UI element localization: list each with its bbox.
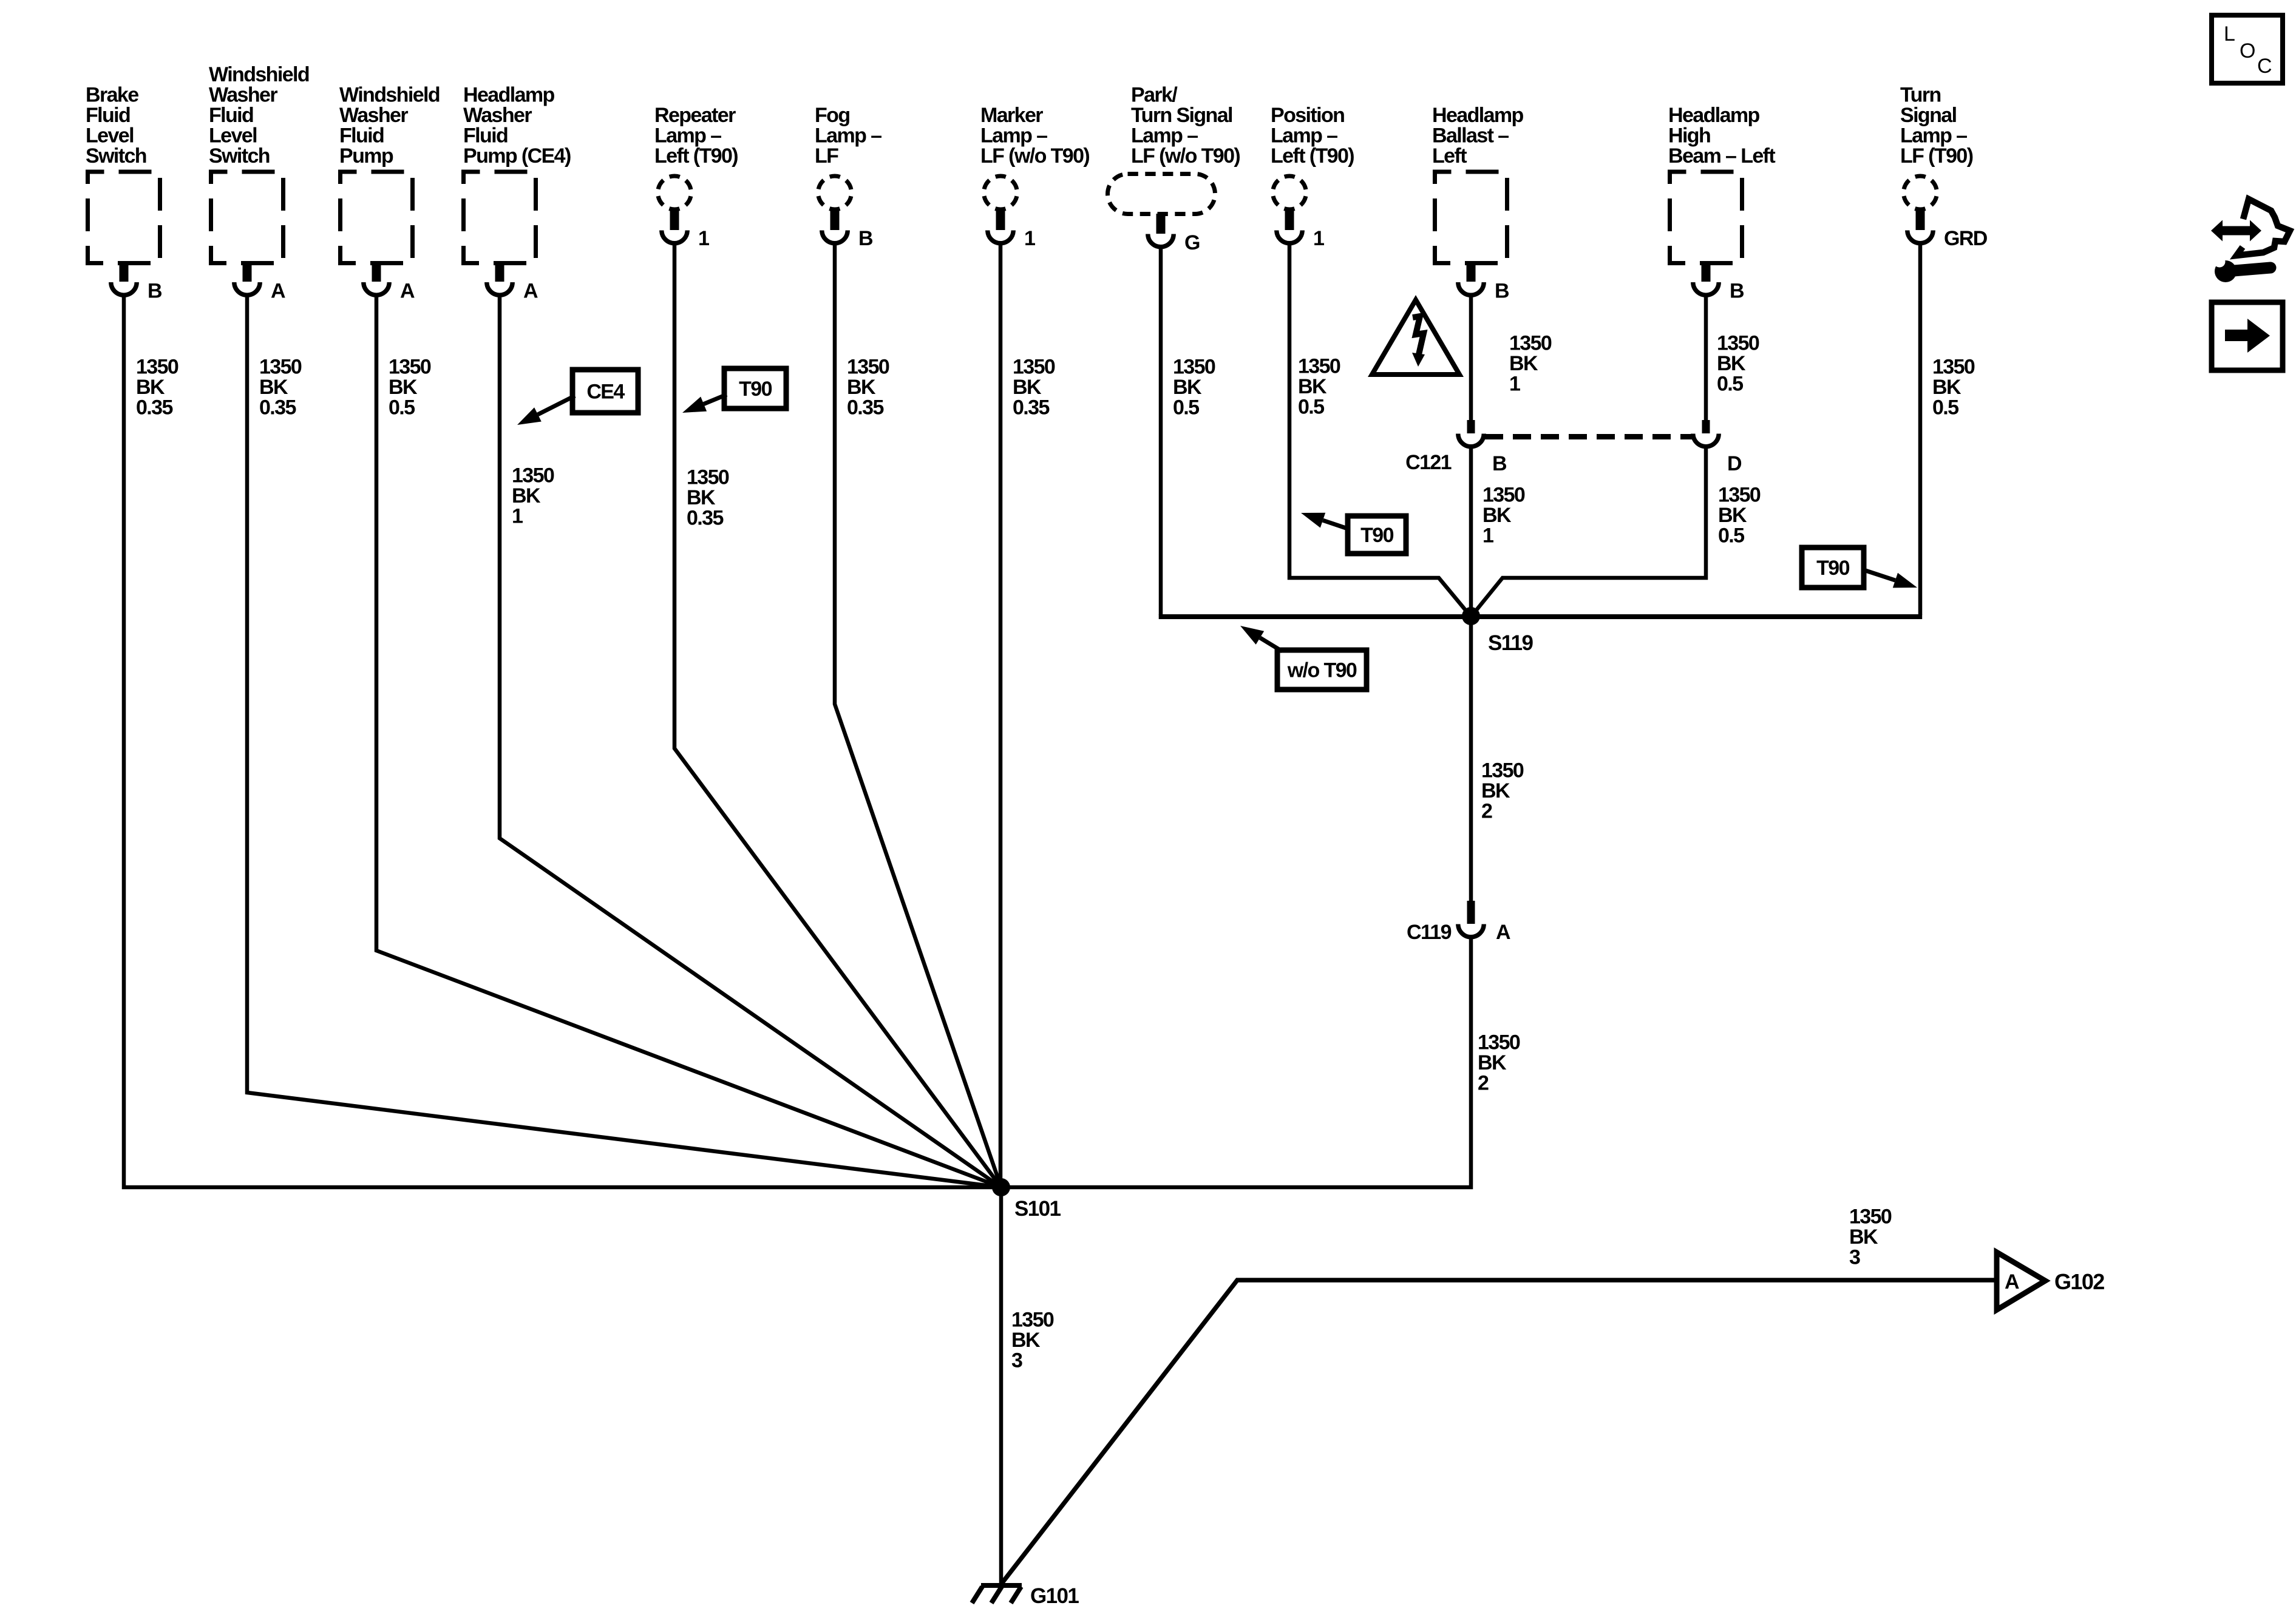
svg-text:CE4: CE4 [586, 381, 625, 404]
svg-text:GRD: GRD [1944, 227, 1988, 250]
svg-text:3: 3 [1849, 1246, 1860, 1269]
svg-text:BK: BK [1509, 352, 1538, 375]
connector C121 pin B [1458, 420, 1484, 447]
svg-text:Ballast –: Ballast – [1432, 124, 1509, 147]
wire label 1350 BK 1 (Headlamp Ballast) [1509, 332, 1552, 396]
Headlamp Washer Fluid Pump (CE4) symbol [464, 172, 536, 295]
wire Marker Lamp pin 1 to S101 [999, 243, 1003, 1187]
svg-text:0.35: 0.35 [259, 396, 296, 419]
svg-text:Fluid: Fluid [339, 124, 384, 147]
svg-text:BK: BK [1849, 1225, 1878, 1249]
component label: Repeater Lamp - Left (T90) [654, 104, 738, 168]
Brake Fluid Level Switch symbol [88, 172, 160, 295]
wire label 1350 BK 2 (S119 to C119) [1481, 759, 1524, 823]
svg-text:1350: 1350 [847, 356, 889, 379]
wire label 1350 BK 0.5 (Park/Turn Signal Lamp) [1173, 356, 1215, 419]
svg-text:1350: 1350 [1849, 1205, 1892, 1229]
component label: Fog Lamp - LF [815, 104, 881, 168]
wire label 1350 BK 3 (to G102) [1849, 1205, 1892, 1269]
svg-text:Washer: Washer [339, 104, 408, 127]
wire S101 to ground G101 [999, 1187, 1004, 1584]
svg-text:Headlamp: Headlamp [463, 84, 555, 107]
component label: Headlamp Washer Fluid Pump (CE4) [463, 84, 571, 168]
wire label 1350 BK 1 (Headlamp Washer Fluid Pump) [512, 464, 554, 528]
svg-text:0.5: 0.5 [389, 396, 415, 419]
svg-text:LF (w/o T90): LF (w/o T90) [1131, 144, 1240, 168]
svg-text:1350: 1350 [1298, 355, 1340, 378]
svg-text:1350: 1350 [1509, 332, 1552, 355]
svg-text:Level: Level [86, 124, 134, 147]
wire Brake Fluid Level Switch pin B to S101 [124, 296, 999, 1187]
svg-text:2: 2 [1478, 1072, 1489, 1095]
wire label 1350 BK 3 (S101 to G101) [1011, 1309, 1054, 1372]
svg-text:Left (T90): Left (T90) [1271, 144, 1354, 168]
wire Headlamp Ballast pin B to connector C121 pin B [1469, 296, 1473, 421]
svg-text:BK: BK [389, 376, 418, 399]
T90 option label box with arrow (Repeater Lamp) [682, 368, 786, 413]
high voltage warning triangle [1372, 300, 1459, 375]
connector C119 pin A [1458, 901, 1484, 937]
svg-text:B: B [858, 227, 873, 250]
svg-text:1350: 1350 [687, 466, 729, 489]
wire Fog Lamp pin B to S101 [835, 243, 1001, 1187]
svg-text:Lamp –: Lamp – [1131, 124, 1198, 147]
svg-text:Turn: Turn [1900, 84, 1941, 107]
Repeater Lamp - Left (T90) symbol [658, 176, 691, 243]
LOC reference box [2212, 15, 2283, 83]
svg-text:Headlamp: Headlamp [1668, 104, 1760, 127]
svg-text:0.35: 0.35 [847, 396, 883, 419]
svg-text:LF (T90): LF (T90) [1900, 144, 1973, 168]
component label: Turn Signal Lamp - LF (T90) [1900, 84, 1973, 168]
svg-text:0.5: 0.5 [1932, 396, 1958, 419]
Position Lamp - Left (T90) symbol [1273, 176, 1306, 243]
wire Position Lamp pin 1 to S119 [1289, 243, 1471, 617]
svg-text:A: A [400, 280, 415, 303]
svg-text:S101: S101 [1014, 1197, 1061, 1221]
wire label 1350 BK 0.35 (Windshield Washer Fluid Level Switch) [259, 356, 302, 419]
svg-text:Switch: Switch [86, 144, 146, 168]
Park/Turn Signal Lamp - LF (w/o T90) symbol [1108, 174, 1215, 247]
Turn Signal Lamp - LF (T90) symbol [1904, 176, 1937, 243]
svg-text:G: G [1184, 231, 1200, 254]
svg-text:BK: BK [1481, 779, 1510, 802]
svg-text:2: 2 [1481, 800, 1492, 823]
svg-text:B: B [1730, 280, 1744, 303]
svg-text:T90: T90 [1360, 524, 1393, 547]
svg-text:Marker: Marker [980, 104, 1043, 127]
ground G101 [972, 1585, 1022, 1603]
svg-text:BK: BK [847, 376, 876, 399]
svg-text:Windshield: Windshield [339, 84, 440, 107]
svg-text:1350: 1350 [1013, 356, 1055, 379]
svg-text:Position: Position [1271, 104, 1344, 127]
svg-text:L: L [2224, 22, 2235, 46]
component label: Brake Fluid Level Switch [86, 84, 146, 168]
svg-text:1: 1 [698, 227, 709, 250]
wire label 1350 BK 0.35 (Marker Lamp) [1013, 356, 1055, 419]
svg-text:Switch: Switch [209, 144, 270, 168]
wire Turn Signal Lamp pin GRD down to S119 bus [1918, 243, 1923, 615]
wire Repeater Lamp pin 1 to S101 [674, 243, 1001, 1187]
svg-text:BK: BK [1932, 376, 1961, 399]
svg-text:A: A [2005, 1270, 2019, 1293]
svg-text:BK: BK [1478, 1051, 1507, 1074]
svg-text:BK: BK [259, 376, 288, 399]
svg-text:High: High [1668, 124, 1710, 147]
svg-text:C119: C119 [1407, 921, 1452, 944]
svg-text:A: A [523, 280, 538, 303]
svg-text:Fluid: Fluid [209, 104, 253, 127]
svg-text:Lamp –: Lamp – [1271, 124, 1337, 147]
wire label 1350 BK 0.5 (Position Lamp) [1298, 355, 1340, 419]
Fog Lamp - LF symbol [818, 176, 852, 243]
svg-text:1350: 1350 [512, 464, 554, 487]
svg-text:0.5: 0.5 [1717, 373, 1743, 396]
svg-text:0.5: 0.5 [1298, 396, 1324, 419]
svg-text:1: 1 [1509, 373, 1520, 396]
connector C121 pin D [1693, 420, 1719, 447]
wire Headlamp Washer Fluid Pump pin A to S101 [500, 296, 1001, 1187]
wire S119 to connector C119 pin A [1469, 617, 1473, 901]
wire G101 branch to ground G102 [1001, 1280, 1995, 1584]
wire label 1350 BK 0.35 (Repeater Lamp) [687, 466, 729, 530]
Headlamp High Beam - Left symbol [1670, 172, 1742, 295]
wire Headlamp High Beam pin B to connector C121 pin D [1704, 296, 1708, 421]
svg-text:1350: 1350 [1173, 356, 1215, 379]
svg-text:1350: 1350 [389, 356, 431, 379]
svg-text:1350: 1350 [1932, 356, 1975, 379]
svg-text:Left (T90): Left (T90) [654, 144, 738, 168]
wire label 1350 BK 0.35 (Brake Fluid Level Switch) [136, 356, 178, 419]
svg-text:A: A [271, 280, 285, 303]
svg-text:Fluid: Fluid [463, 124, 508, 147]
svg-text:D: D [1727, 452, 1742, 475]
svg-text:1350: 1350 [1478, 1031, 1520, 1054]
svg-text:B: B [148, 280, 162, 303]
svg-text:0.35: 0.35 [687, 507, 723, 530]
component label: Headlamp Ballast - Left [1432, 104, 1524, 168]
svg-text:0.5: 0.5 [1173, 396, 1199, 419]
svg-text:C121: C121 [1405, 451, 1452, 474]
svg-text:1350: 1350 [1481, 759, 1524, 782]
svg-text:Lamp –: Lamp – [1900, 124, 1967, 147]
wire label 1350 BK 2 (C119 to S101) [1478, 1031, 1520, 1095]
CE4 option label box with arrow [517, 370, 638, 425]
w/o T90 option label box with arrow (S119 bus) [1240, 626, 1367, 690]
svg-text:Windshield: Windshield [209, 63, 309, 86]
wire label 1350 BK 1 (C121 B to S119) [1483, 484, 1525, 547]
svg-text:Lamp –: Lamp – [980, 124, 1047, 147]
svg-text:G102: G102 [2054, 1269, 2104, 1294]
wire Park/Turn Signal Lamp pin G down to S119 bus [1159, 246, 1163, 615]
wire label 1350 BK 0.5 (Windshield Washer Fluid Pump) [389, 356, 431, 419]
wire C121 pin B to S119 [1469, 448, 1473, 617]
svg-text:G101: G101 [1030, 1584, 1079, 1608]
svg-text:0.35: 0.35 [136, 396, 172, 419]
svg-text:Headlamp: Headlamp [1432, 104, 1524, 127]
svg-text:BK: BK [1717, 352, 1746, 375]
svg-text:1: 1 [1024, 227, 1035, 250]
svg-text:Brake: Brake [86, 84, 138, 107]
svg-text:1: 1 [512, 505, 523, 528]
svg-text:Lamp –: Lamp – [815, 124, 881, 147]
component label: Park/Turn Signal Lamp - LF (w/o T90) [1131, 84, 1240, 168]
C121 dashed connector link [1485, 434, 1693, 439]
svg-text:1350: 1350 [136, 356, 178, 379]
splice S119 [1462, 607, 1480, 625]
svg-text:0.5: 0.5 [1718, 524, 1744, 547]
svg-text:LF: LF [815, 144, 838, 168]
forward reference arrow box [2212, 302, 2283, 370]
svg-text:BK: BK [1013, 376, 1042, 399]
wire label 1350 BK 0.5 (C121 D to S119) [1718, 484, 1761, 547]
svg-text:Pump: Pump [339, 144, 393, 168]
svg-text:3: 3 [1011, 1349, 1022, 1372]
svg-text:Lamp –: Lamp – [654, 124, 721, 147]
svg-text:Fluid: Fluid [86, 104, 130, 127]
svg-text:BK: BK [512, 484, 541, 507]
wire label 1350 BK 0.5 (Turn Signal Lamp) [1932, 356, 1975, 419]
svg-text:S119: S119 [1488, 631, 1533, 655]
svg-text:B: B [1495, 280, 1509, 303]
body repair icon (double arrow, panel outline, wrench) [2211, 199, 2290, 282]
svg-text:1: 1 [1483, 524, 1493, 547]
svg-text:Repeater: Repeater [654, 104, 736, 127]
ground G102 connector triangle A [1997, 1252, 2045, 1310]
svg-text:Level: Level [209, 124, 257, 147]
component label: Windshield Washer Fluid Pump [339, 84, 440, 168]
svg-text:BK: BK [687, 486, 716, 509]
svg-text:1350: 1350 [1717, 332, 1759, 355]
Headlamp Ballast - Left symbol [1435, 172, 1507, 295]
svg-text:A: A [1496, 921, 1510, 944]
svg-text:T90: T90 [739, 378, 772, 401]
wire Windshield Washer Fluid Level Switch pin A to S101 [247, 296, 1001, 1187]
svg-text:1: 1 [1313, 227, 1324, 250]
svg-text:Left: Left [1432, 144, 1467, 168]
svg-text:O: O [2240, 39, 2255, 63]
wire label 1350 BK 0.5 (Headlamp High Beam) [1717, 332, 1759, 396]
T90 option label box with arrow (Turn Signal) [1802, 547, 1917, 588]
svg-text:1350: 1350 [259, 356, 302, 379]
svg-text:0.35: 0.35 [1013, 396, 1049, 419]
Marker Lamp - LF (w/o T90) symbol [984, 176, 1017, 243]
svg-text:BK: BK [1173, 376, 1202, 399]
wire S119 bus horizontal [1159, 614, 1923, 619]
svg-text:C: C [2257, 55, 2272, 78]
svg-text:T90: T90 [1816, 557, 1849, 580]
svg-text:BK: BK [1298, 375, 1327, 398]
component label: Marker Lamp - LF (w/o T90) [980, 104, 1089, 168]
svg-text:LF (w/o T90): LF (w/o T90) [980, 144, 1089, 168]
svg-text:1350: 1350 [1483, 484, 1525, 507]
wire Windshield Washer Fluid Pump pin A to S101 [376, 296, 1001, 1187]
svg-text:Park/: Park/ [1131, 84, 1178, 107]
svg-text:BK: BK [1718, 504, 1747, 527]
svg-text:Washer: Washer [463, 104, 532, 127]
svg-text:Turn Signal: Turn Signal [1131, 104, 1232, 127]
svg-text:BK: BK [1011, 1329, 1041, 1352]
svg-text:w/o T90: w/o T90 [1287, 659, 1357, 682]
svg-text:Signal: Signal [1900, 104, 1957, 127]
svg-text:B: B [1492, 452, 1507, 475]
svg-text:1350: 1350 [1011, 1309, 1054, 1332]
svg-text:BK: BK [136, 376, 165, 399]
splice S101 [992, 1178, 1010, 1196]
svg-text:Beam – Left: Beam – Left [1668, 144, 1775, 168]
wire label 1350 BK 0.35 (Fog Lamp) [847, 356, 889, 419]
Windshield Washer Fluid Level Switch symbol [211, 172, 284, 295]
svg-text:1350: 1350 [1718, 484, 1761, 507]
component label: Headlamp High Beam - Left [1668, 104, 1775, 168]
svg-text:BK: BK [1483, 504, 1512, 527]
svg-text:Fog: Fog [815, 104, 850, 127]
svg-text:Washer: Washer [209, 84, 277, 107]
component label: Position Lamp - Left (T90) [1271, 104, 1354, 168]
wire C121 pin D to S119 [1471, 448, 1706, 617]
svg-text:Pump (CE4): Pump (CE4) [463, 144, 571, 168]
wire C119 to S101 [1001, 938, 1471, 1187]
Windshield Washer Fluid Pump symbol [341, 172, 413, 295]
T90 option label box with arrow (Position Lamp) [1301, 513, 1406, 554]
component label: Windshield Washer Fluid Level Switch [209, 63, 309, 168]
